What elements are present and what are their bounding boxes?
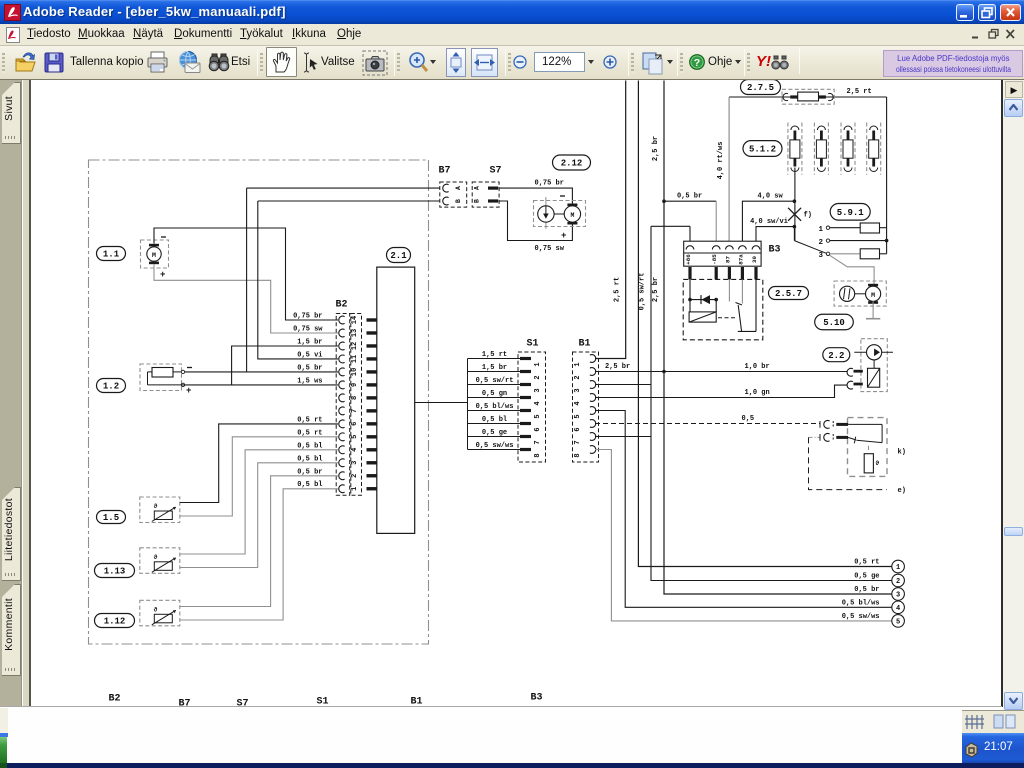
svg-text:0,5 br: 0,5 br	[677, 193, 702, 201]
valve circle 2.2	[854, 351, 893, 353]
svg-text:1,0 br: 1,0 br	[745, 363, 770, 371]
svg-text:ϑ: ϑ	[154, 503, 158, 510]
page right edge + scrollbar	[1001, 80, 1003, 707]
wire sensor 1.13 a to B2 pin4 (0,5 bl)	[180, 450, 338, 554]
svg-text:M: M	[871, 292, 875, 299]
wire B7B row	[258, 200, 440, 202]
solenoid body	[873, 360, 875, 368]
fan symbol	[840, 286, 855, 301]
svg-text:0,5 rt: 0,5 rt	[297, 429, 322, 437]
svg-text:5: 5	[896, 619, 900, 627]
svg-text:0,5 sw/ws: 0,5 sw/ws	[476, 442, 514, 450]
oval label 5.10	[815, 314, 854, 330]
svg-text:1.2: 1.2	[103, 382, 119, 392]
wire sensor 1.12 a to B2 pin2 (0,5 br)	[180, 476, 338, 607]
control unit 2.1 box	[377, 267, 415, 533]
svg-text:3: 3	[534, 388, 542, 392]
B3 pin 87	[726, 246, 734, 250]
svg-text:0,75 br: 0,75 br	[293, 313, 322, 321]
fit height button	[446, 48, 466, 77]
sender resistor	[868, 446, 870, 450]
svg-text:0,5 br: 0,5 br	[854, 586, 879, 594]
print icon	[146, 50, 169, 75]
svg-text:14: 14	[351, 316, 359, 324]
svg-text:+: +	[561, 231, 566, 241]
svg-text:+86: +86	[685, 254, 692, 265]
svg-text:?: ?	[694, 57, 700, 69]
5.10 dashed box	[834, 281, 886, 306]
svg-text:4: 4	[534, 401, 542, 405]
oval label 2.7.5	[741, 80, 781, 95]
svg-text:ϑ: ϑ	[876, 460, 880, 467]
svg-text:0,5 ge: 0,5 ge	[482, 429, 507, 437]
svg-text:f): f)	[804, 212, 812, 220]
oval label 2.2	[823, 348, 850, 362]
S1 dashed box	[518, 352, 546, 462]
svg-text:2.7.5: 2.7.5	[747, 83, 774, 93]
fuse element 2 of 5.1.2	[813, 123, 815, 175]
wire B2 pin12 (1,5 br) jumper to pin9 row	[232, 346, 338, 385]
svg-text:0,5 bl: 0,5 bl	[297, 455, 322, 463]
svg-text:0,5 bl: 0,5 bl	[482, 416, 507, 424]
oval label 5.1.2	[743, 141, 782, 157]
B7 sockets A,B	[443, 184, 449, 192]
switch inside k	[848, 423, 882, 425]
terminal circle 1	[892, 560, 905, 573]
svg-text:2.12: 2.12	[561, 159, 583, 169]
S1 row 3 wire 0,5 sw/rt	[468, 384, 521, 386]
connector S7 box	[472, 182, 499, 207]
svg-text:2: 2	[351, 474, 359, 478]
svg-text:8: 8	[574, 453, 582, 457]
svg-text:B2: B2	[336, 300, 348, 311]
wire from fuse1 down to junction	[794, 168, 796, 241]
2.12 dashed box	[534, 201, 586, 227]
wire 0,5 br from trunk to B3 -85	[664, 200, 716, 202]
svg-text:-85: -85	[711, 254, 718, 265]
svg-text:11: 11	[351, 355, 359, 363]
svg-text:ϑ: ϑ	[154, 554, 158, 561]
svg-text:e): e)	[898, 487, 906, 495]
wire 1.2 minus to B2 pin10 (0,5 br)	[185, 371, 339, 373]
glow plug body 1.2	[152, 368, 173, 378]
svg-text:1,5 br: 1,5 br	[297, 338, 322, 346]
svg-text:9: 9	[351, 383, 359, 387]
wire motor1.1 minus to B2 pin14 (0,75 br)	[154, 228, 338, 320]
coil	[689, 312, 716, 322]
svg-text:1.13: 1.13	[104, 567, 126, 577]
svg-text:5.9.1: 5.9.1	[837, 208, 865, 218]
svg-text:10: 10	[351, 368, 359, 376]
svg-text:2: 2	[819, 239, 824, 247]
svg-text:0,5 ge: 0,5 ge	[854, 573, 879, 581]
B3 pin +86	[686, 246, 694, 250]
oval label 1.5	[97, 511, 126, 524]
svg-text:1,0 gn: 1,0 gn	[745, 389, 770, 397]
page layout icon	[641, 51, 666, 75]
svg-text:B3: B3	[531, 693, 543, 704]
zoom in circle	[603, 55, 617, 69]
svg-text:0,5 bl: 0,5 bl	[297, 481, 322, 489]
ground	[872, 301, 874, 318]
svg-text:0,75 sw: 0,75 sw	[293, 325, 323, 333]
svg-text:A: A	[455, 186, 462, 190]
svg-text:5.1.2: 5.1.2	[749, 145, 776, 155]
svg-text:0,5 br: 0,5 br	[297, 364, 322, 372]
svg-text:2,5 rt: 2,5 rt	[614, 277, 622, 302]
status bar page layout icons	[965, 714, 985, 730]
help icon	[689, 54, 705, 70]
bottom fragments	[0, 706, 1002, 707]
fuse element 3 of 5.1.2	[840, 123, 842, 175]
sensor 1.5 dashed box	[140, 497, 180, 523]
tray icon	[964, 742, 979, 758]
wire 2.1 to S1 (0,5 bl/ws)	[415, 402, 468, 404]
svg-text:0,5 bl/ws: 0,5 bl/ws	[842, 599, 880, 607]
zoom magnifier	[406, 50, 432, 76]
switch arm below junction	[793, 227, 795, 241]
wire B1 pin6 dashed 0,5 to sensor k	[595, 423, 820, 425]
svg-text:B7: B7	[439, 166, 451, 177]
right vertical from fuse to 5.9.1	[886, 97, 888, 254]
trunk 4,0 rt/ws from fuse down to B3 87	[728, 97, 730, 244]
svg-text:6: 6	[534, 427, 542, 431]
wire B1 pin2 2,5 br / 1,0 br to pump 2.2	[595, 371, 848, 373]
svg-text:87a: 87a	[737, 254, 744, 265]
svg-text:1.12: 1.12	[104, 617, 126, 627]
wire B1 pin8 down to circle row5	[595, 450, 892, 621]
svg-text:6: 6	[574, 427, 582, 431]
svg-text:2: 2	[534, 375, 542, 379]
wire motor1.1 plus to B2 pin13 (0,75 sw)	[154, 265, 338, 334]
B1 dashed box	[573, 352, 599, 462]
svg-text:0,5 sw/rt: 0,5 sw/rt	[476, 377, 514, 385]
svg-text:1,5 ws: 1,5 ws	[297, 377, 322, 385]
connector B7 box	[440, 182, 467, 207]
svg-text:2: 2	[574, 375, 582, 379]
title bar	[0, 0, 1024, 24]
S1 row 4 wire 0,5 gn	[468, 397, 521, 399]
oval label 5.9.1	[830, 204, 870, 221]
svg-text:0,5 bl/ws: 0,5 bl/ws	[476, 403, 514, 411]
B2 pin sockets and numbers	[339, 316, 345, 324]
svg-text:A: A	[474, 186, 481, 190]
terminal circle 2	[892, 574, 905, 587]
fuse 2.7.5 dashed box	[782, 89, 834, 104]
svg-text:3: 3	[896, 592, 900, 600]
wire B7A row to left verticals	[247, 187, 440, 189]
svg-text:0,5 sw/ws: 0,5 sw/ws	[842, 613, 880, 621]
svg-text:S1: S1	[527, 339, 539, 350]
svg-text:3: 3	[574, 388, 582, 392]
relay switch contacts	[728, 279, 730, 301]
document page area	[32, 80, 1002, 707]
snapshot camera	[362, 50, 388, 76]
X connection symbol f)	[788, 208, 801, 221]
oval label 1.12	[95, 614, 135, 628]
motor M 1.1	[147, 247, 161, 261]
wire sensor 1.12 b to B2 pin1 (0,5 bl)	[180, 489, 338, 620]
S1 row 6 wire 0,5 bl	[468, 423, 521, 425]
wire sensor 1.5 b to B2 pin5 (0,5 rt)	[180, 437, 338, 516]
svg-text:8: 8	[351, 396, 359, 400]
svg-text:M: M	[570, 212, 574, 219]
wire through fuse 2.7.5 (2,5 rt)	[729, 96, 887, 98]
wire B2 pin11 (0,5 vi) up to B7 pin B	[258, 201, 338, 359]
wire B1 pin7 to vertical x650.5	[595, 436, 651, 438]
svg-text:S7: S7	[490, 166, 502, 177]
wire S7 to 2.12 plus (0,75 sw)	[499, 201, 572, 241]
motor M 2.12	[564, 206, 580, 222]
valve circle	[545, 197, 547, 229]
trunk wire 2,5 br (x=663.5)	[664, 81, 892, 595]
component 1.1 dashed box	[141, 240, 169, 268]
B3 pin -85	[712, 246, 720, 250]
svg-text:2,5 br: 2,5 br	[605, 363, 630, 371]
svg-text:3: 3	[351, 461, 359, 465]
svg-text:5: 5	[351, 435, 359, 439]
2.2 dashed box	[861, 339, 887, 392]
svg-text:2: 2	[896, 578, 900, 586]
sidebar	[0, 80, 22, 707]
adobe ad box	[883, 50, 1023, 77]
svg-text:2,5 br: 2,5 br	[652, 136, 660, 161]
motor M 5.10	[866, 286, 881, 301]
svg-text:6: 6	[351, 422, 359, 426]
svg-text:B: B	[455, 199, 462, 203]
B3 pin 87a	[739, 246, 747, 250]
svg-text:ϑ: ϑ	[154, 606, 158, 613]
oval label 2.12	[553, 155, 591, 170]
trunk wire x=637.9 top to bottom circle row1	[638, 81, 891, 567]
svg-text:1: 1	[819, 226, 824, 234]
svg-text:B1: B1	[579, 339, 591, 350]
save icon	[44, 51, 64, 74]
svg-text:7: 7	[534, 440, 542, 444]
Y!M icon	[756, 53, 771, 70]
oval label 1.2	[97, 379, 126, 393]
fit width button	[471, 48, 498, 77]
svg-text:1: 1	[574, 362, 582, 366]
S1 row 5 wire 0,5 bl/ws	[468, 410, 521, 412]
svg-text:2,5 rt: 2,5 rt	[847, 88, 872, 96]
svg-text:0,5 rt: 0,5 rt	[297, 416, 322, 424]
dashed boundary to e)	[809, 437, 888, 489]
wire +86 up	[689, 226, 691, 241]
binoculars icon	[208, 51, 230, 74]
toolbar	[0, 46, 1024, 80]
svg-text:1,5 br: 1,5 br	[482, 364, 507, 372]
svg-text:2.5.7: 2.5.7	[775, 289, 802, 299]
sensor k dashed box	[848, 418, 888, 477]
oval label 1.13	[95, 564, 135, 578]
app icon	[4, 4, 21, 21]
svg-text:7: 7	[351, 409, 359, 413]
svg-text:5: 5	[574, 414, 582, 418]
svg-text:8: 8	[534, 453, 542, 457]
svg-text:B2: B2	[109, 694, 121, 705]
svg-text:4,0 sw/vi: 4,0 sw/vi	[750, 218, 788, 226]
trunk wire 2,5 rt (x=625.2) top to B1 pin1	[595, 81, 626, 359]
zoom out circle	[513, 55, 527, 69]
svg-text:0,5 br: 0,5 br	[297, 468, 322, 476]
svg-text:4: 4	[351, 448, 359, 452]
wire sensor 1.5 a to B2 pin6 (0,5 rt)	[180, 424, 338, 503]
k sockets	[819, 421, 821, 428]
1.2 terminals	[181, 370, 184, 373]
svg-text:0,5 gn: 0,5 gn	[482, 390, 507, 398]
S1 cable bundle bracket	[467, 359, 469, 450]
svg-text:3: 3	[819, 252, 824, 260]
oval label 2.1	[387, 248, 411, 263]
svg-text:0,5 rt: 0,5 rt	[854, 559, 879, 567]
svg-text:12: 12	[351, 342, 359, 350]
svg-text:2.2: 2.2	[828, 351, 844, 361]
2.2 terminals	[847, 368, 853, 376]
terminal circle 4	[892, 601, 905, 614]
svg-text:0,75 br: 0,75 br	[535, 180, 564, 188]
svg-text:2,5 br: 2,5 br	[652, 277, 660, 302]
svg-text:5.10: 5.10	[823, 318, 845, 328]
wire B1 pin4 1,0 gn to pump 2.2	[595, 385, 848, 397]
wire B1 pin5 down to circle row4	[595, 411, 892, 608]
svg-text:0,5 vi: 0,5 vi	[297, 351, 322, 359]
svg-text:4,0 rt/ws: 4,0 rt/ws	[717, 142, 725, 180]
svg-text:13: 13	[351, 329, 359, 337]
svg-text:1.1: 1.1	[103, 250, 120, 260]
hand tool (active)	[266, 47, 297, 77]
svg-text:0,5 bl: 0,5 bl	[297, 442, 322, 450]
vertical x=650.5 from B3 +86 branch down to circle row2	[651, 225, 690, 227]
oval label 1.1	[97, 247, 126, 261]
relay 2.5.7 dashed box	[683, 279, 763, 339]
svg-text:4: 4	[896, 605, 900, 613]
wire 4,0 sw from B3 87a to junction	[742, 201, 794, 244]
diode	[690, 299, 716, 301]
wire sensor 1.13 b to B2 pin3 (0,5 bl)	[180, 463, 338, 568]
sensor 1.13 dashed box	[140, 548, 180, 574]
wire 4,0 sw/vi from B3 30 to junction	[756, 227, 794, 244]
dashed actuator link	[718, 317, 738, 319]
resistor R2	[860, 249, 879, 259]
terminal circle 3	[892, 588, 905, 601]
component 1.2 dashed box	[140, 364, 182, 391]
svg-text:k): k)	[898, 449, 906, 457]
dash-dot boundary box of heater unit	[89, 160, 429, 644]
S1 row 1 wire 1,5 rt	[468, 358, 521, 360]
svg-text:7: 7	[574, 440, 582, 444]
oval label 2.5.7	[769, 287, 809, 300]
connector B2 socket box	[336, 314, 350, 496]
svg-text:1,5 rt: 1,5 rt	[482, 351, 507, 359]
S1 row 7 wire 0,5 ge	[468, 436, 521, 438]
svg-text:0,75 sw: 0,75 sw	[535, 245, 565, 253]
svg-text:5: 5	[534, 414, 542, 418]
svg-text:M: M	[152, 252, 156, 259]
B3 pin 30	[752, 246, 760, 250]
svg-text:1: 1	[534, 362, 542, 366]
svg-text:1.5: 1.5	[103, 513, 119, 523]
link	[855, 293, 866, 295]
window buttons	[956, 4, 974, 21]
wire B1 pin3 to vertical x650.5	[595, 384, 651, 386]
svg-text:B: B	[474, 199, 481, 203]
select tool icon	[302, 51, 319, 74]
open icon	[13, 50, 37, 75]
relay coil circuit	[689, 279, 691, 312]
resistor R1	[860, 223, 879, 233]
branch up to B7 pin A	[246, 188, 248, 372]
menu bar	[0, 24, 1024, 46]
svg-text:4: 4	[574, 401, 582, 405]
svg-text:+: +	[186, 386, 191, 396]
svg-text:30: 30	[751, 256, 758, 263]
svg-text:2.1: 2.1	[390, 251, 407, 261]
svg-text:1: 1	[896, 564, 900, 572]
svg-text:B3: B3	[769, 245, 781, 256]
second socket with dash-dot lead	[809, 436, 821, 438]
wire S7 to 2.12 motor minus (0,75 br)	[499, 188, 572, 205]
svg-text:1: 1	[351, 487, 359, 491]
S1 row 8 wire 0,5 sw/ws	[468, 449, 521, 451]
wire from 5.9.1 t3 to fan 5.10	[830, 255, 874, 286]
link line	[554, 213, 564, 215]
B3 connector body	[684, 241, 761, 266]
email/web icon	[177, 50, 201, 75]
svg-text:+: +	[160, 270, 165, 280]
fuse element 1 of 5.1.2	[787, 123, 789, 175]
svg-text:4,0 sw: 4,0 sw	[758, 193, 784, 201]
svg-text:0,5 sw/rt: 0,5 sw/rt	[639, 273, 647, 311]
terminal circle 5	[892, 615, 905, 628]
wire 1.2 plus to B2 pin9 (1,5 ws)	[182, 384, 339, 386]
S1 row 2 wire 1,5 br	[468, 371, 521, 373]
svg-text:0,5: 0,5	[742, 415, 755, 423]
zoom percent box	[534, 52, 585, 72]
sensor 1.12 dashed box	[140, 600, 180, 626]
svg-text:87: 87	[724, 256, 731, 263]
fuse element 4 of 5.1.2	[866, 123, 868, 175]
